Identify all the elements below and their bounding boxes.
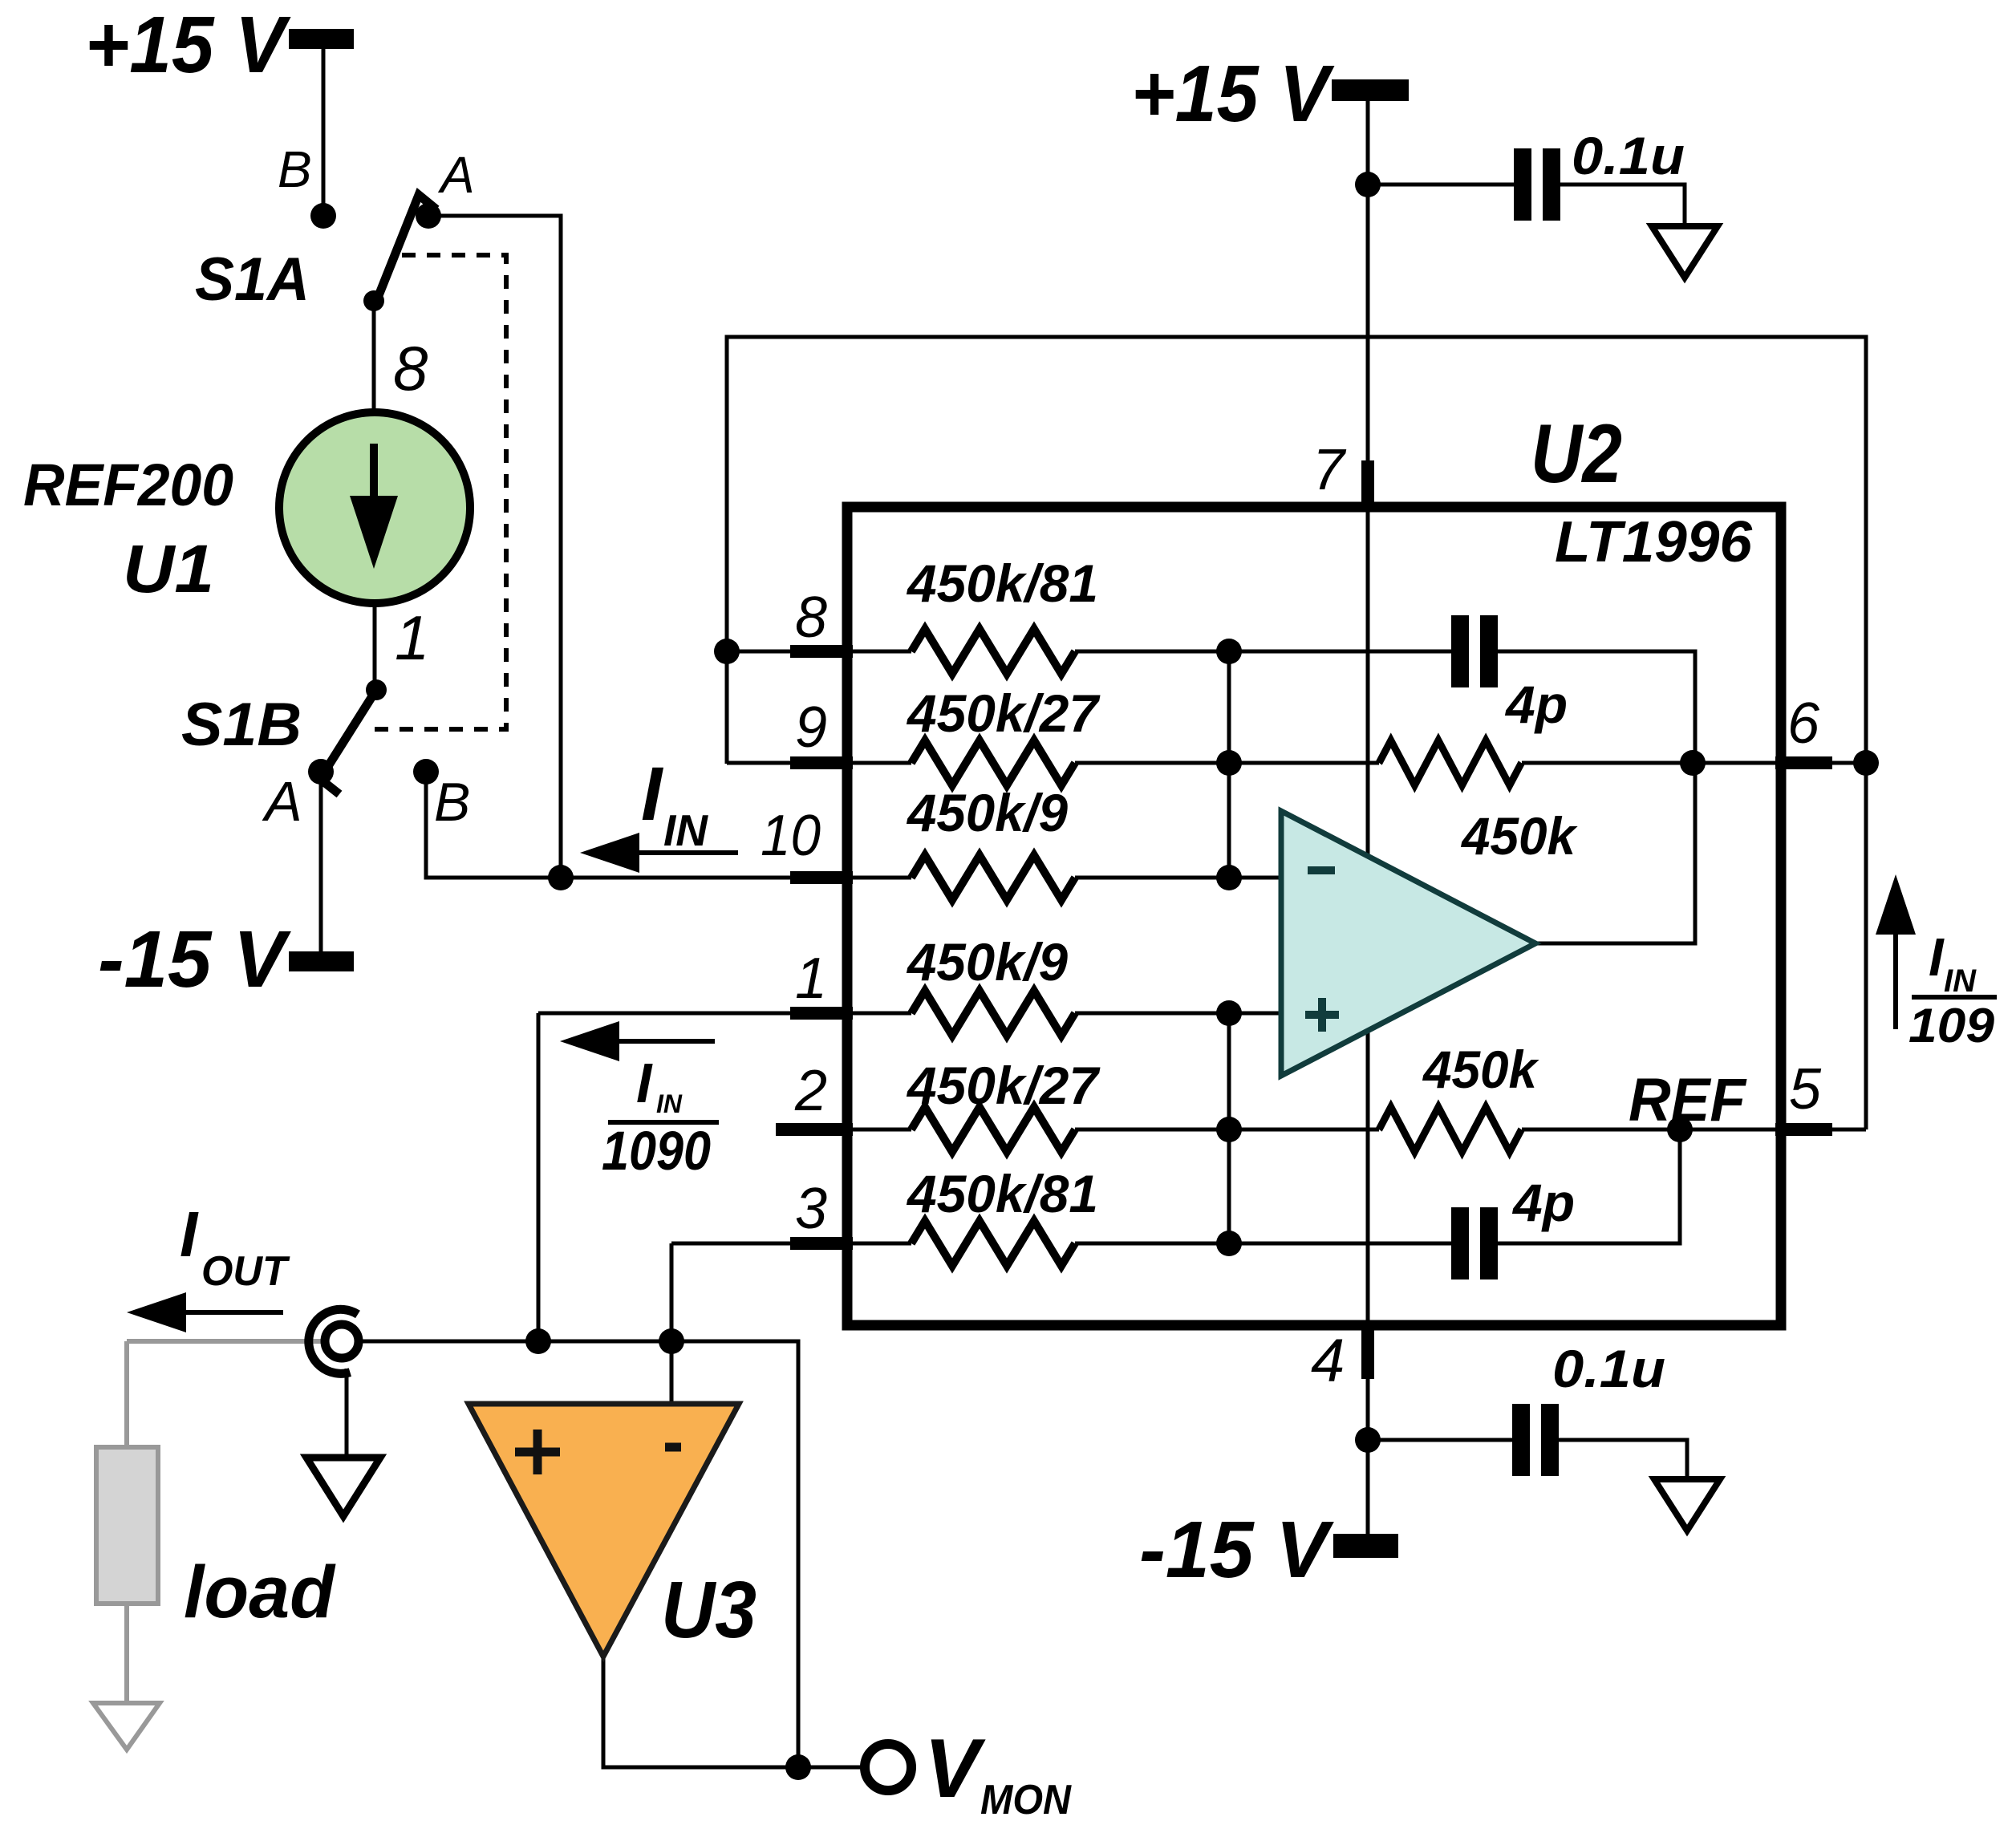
- svg-text:450k/81: 450k/81: [906, 554, 1098, 613]
- svg-text:6: 6: [1787, 691, 1820, 756]
- svg-text:7: 7: [1312, 438, 1347, 502]
- svg-text:8: 8: [795, 586, 827, 650]
- svg-text:-15 V: -15 V: [1139, 1505, 1334, 1595]
- svg-text:450k: 450k: [1460, 806, 1578, 866]
- svg-text:5: 5: [1789, 1057, 1822, 1121]
- svg-text:A: A: [437, 146, 475, 204]
- svg-text:REF200: REF200: [23, 452, 233, 518]
- svg-text:1090: 1090: [602, 1120, 711, 1182]
- svg-text:IN: IN: [656, 1089, 683, 1118]
- svg-text:2: 2: [794, 1059, 827, 1123]
- svg-text:-15 V: -15 V: [98, 914, 291, 1004]
- svg-text:IN: IN: [663, 805, 708, 855]
- svg-text:9: 9: [795, 696, 827, 760]
- svg-text:10: 10: [761, 804, 821, 868]
- svg-text:1: 1: [795, 947, 827, 1011]
- svg-text:load: load: [184, 1551, 336, 1633]
- svg-text:S1A: S1A: [195, 245, 310, 314]
- svg-text:LT1996: LT1996: [1555, 510, 1753, 574]
- svg-text:4p: 4p: [1504, 675, 1568, 734]
- svg-text:I: I: [636, 1052, 653, 1114]
- svg-text:450k/27: 450k/27: [906, 1056, 1101, 1115]
- svg-text:OUT: OUT: [201, 1248, 290, 1295]
- svg-text:I: I: [1929, 927, 1945, 987]
- svg-text:IN: IN: [1944, 963, 1977, 999]
- svg-text:4p: 4p: [1511, 1173, 1575, 1232]
- svg-text:450k/9: 450k/9: [906, 783, 1068, 842]
- svg-text:450k: 450k: [1422, 1040, 1539, 1099]
- svg-text:109: 109: [1909, 999, 1995, 1052]
- svg-text:U1: U1: [123, 531, 214, 606]
- svg-text:S1B: S1B: [181, 691, 302, 759]
- svg-text:0.1u: 0.1u: [1552, 1339, 1665, 1398]
- svg-text:I: I: [180, 1198, 199, 1270]
- svg-text:I: I: [641, 752, 664, 837]
- svg-text:U3: U3: [661, 1565, 757, 1655]
- svg-text:0.1u: 0.1u: [1572, 126, 1685, 185]
- svg-text:B: B: [434, 772, 470, 833]
- svg-text:450k/27: 450k/27: [906, 683, 1101, 743]
- svg-text:REF: REF: [1629, 1066, 1747, 1134]
- svg-text:+15 V: +15 V: [1131, 49, 1335, 139]
- svg-text:1: 1: [395, 602, 429, 673]
- svg-text:8: 8: [393, 333, 428, 404]
- svg-text:+15 V: +15 V: [85, 0, 291, 90]
- svg-text:450k/81: 450k/81: [906, 1164, 1098, 1223]
- svg-text:B: B: [278, 140, 312, 198]
- svg-text:4: 4: [1311, 1327, 1345, 1395]
- svg-text:V: V: [924, 1722, 986, 1815]
- svg-text:450k/9: 450k/9: [906, 932, 1068, 992]
- svg-text:3: 3: [795, 1177, 827, 1241]
- svg-text:U2: U2: [1531, 408, 1622, 501]
- svg-text:A: A: [262, 770, 302, 833]
- svg-text:MON: MON: [980, 1777, 1072, 1823]
